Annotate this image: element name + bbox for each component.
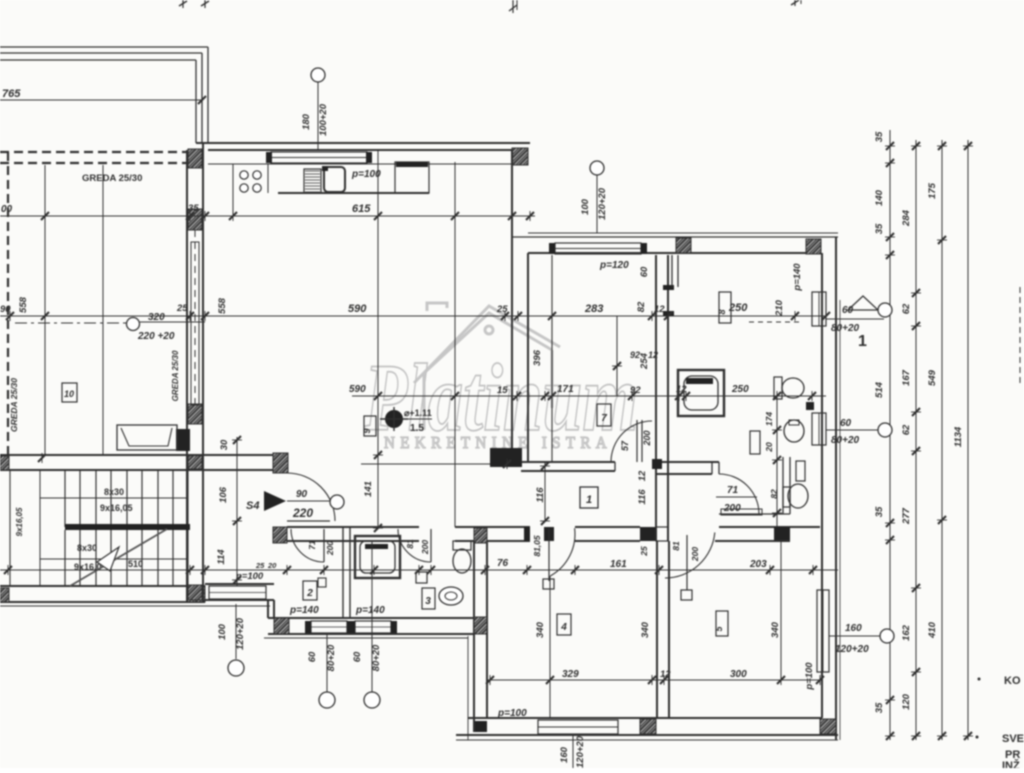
right exterior wall bbox=[821, 253, 823, 718]
bedroom1 door arc bbox=[611, 421, 652, 462]
svg-text:p=140: p=140 bbox=[289, 605, 319, 616]
corridor bottom wall segments bbox=[287, 526, 419, 528]
svg-text:p=120: p=120 bbox=[599, 260, 629, 271]
svg-text:81: 81 bbox=[671, 541, 681, 551]
svg-text:220: 220 bbox=[292, 506, 313, 520]
kitchen window top bbox=[271, 152, 367, 163]
svg-text:590: 590 bbox=[348, 303, 367, 315]
washing machine room2-3 bbox=[355, 536, 400, 578]
vertical dim x617 door bedroom bbox=[616, 316, 618, 396]
svg-text:71: 71 bbox=[307, 540, 317, 550]
black shaft block corridor top bbox=[490, 448, 522, 467]
wc niche partition bbox=[782, 457, 784, 514]
svg-text:410: 410 bbox=[927, 621, 938, 639]
room3 label box bbox=[422, 588, 435, 609]
svg-text:8: 8 bbox=[717, 309, 727, 314]
grid line x45 bbox=[44, 165, 46, 455]
stairs treads lower flight bbox=[64, 530, 66, 586]
svg-text:81: 81 bbox=[405, 539, 415, 549]
neighbor line right bbox=[1019, 287, 1021, 384]
window right wall upper p=140 bbox=[812, 292, 826, 326]
svg-text:329: 329 bbox=[562, 669, 579, 680]
svg-text:8x30: 8x30 bbox=[77, 543, 97, 553]
svg-text:60: 60 bbox=[307, 651, 318, 662]
vertical dimension chain A x890 bbox=[889, 130, 891, 740]
svg-text:250: 250 bbox=[731, 384, 749, 395]
leader circle bedroom window bbox=[590, 161, 604, 175]
svg-text:8x30: 8x30 bbox=[104, 487, 124, 497]
dimension line y570 full chain bbox=[0, 569, 455, 571]
svg-text:57: 57 bbox=[620, 440, 630, 451]
hatch block bottom wall rooms corner left bbox=[274, 618, 289, 634]
hatch blocks main wall bbox=[188, 149, 202, 168]
kitchen exterior wall top bbox=[196, 142, 530, 144]
black block at room4 door bbox=[524, 527, 530, 541]
leader window2 60/80+20 bbox=[826, 429, 878, 431]
room2 label box bbox=[303, 581, 317, 600]
svg-text:3: 3 bbox=[425, 596, 431, 607]
light fixture symbol bbox=[385, 410, 403, 428]
corridor top wall bbox=[521, 461, 615, 463]
leader circle entry bbox=[330, 495, 344, 509]
hatch block stairs wall right bbox=[190, 586, 205, 602]
leader hall window bbox=[235, 604, 237, 659]
window right wall middle bbox=[812, 413, 826, 445]
toilet bath bbox=[774, 377, 782, 399]
room2 door arc bbox=[291, 529, 324, 562]
room3 door arc bbox=[398, 529, 431, 562]
svg-text:25: 25 bbox=[639, 546, 649, 557]
svg-text:180: 180 bbox=[301, 113, 312, 130]
partition rooms 2-3 bbox=[342, 527, 344, 618]
svg-text:284: 284 bbox=[901, 209, 912, 227]
svg-text:120+20: 120+20 bbox=[835, 644, 869, 655]
thin line dining-corridor bbox=[361, 463, 490, 465]
svg-text:116: 116 bbox=[535, 487, 546, 503]
svg-text:200: 200 bbox=[690, 547, 700, 562]
svg-text:INŽ: INŽ bbox=[1002, 759, 1020, 768]
svg-text:62: 62 bbox=[901, 424, 912, 435]
svg-text:71: 71 bbox=[727, 485, 739, 496]
svg-text:76: 76 bbox=[497, 558, 509, 569]
svg-text:116: 116 bbox=[637, 489, 648, 505]
svg-text:1: 1 bbox=[858, 333, 867, 350]
fridge hatch bbox=[304, 169, 321, 193]
svg-text:SVE: SVE bbox=[1002, 733, 1024, 745]
black chimney block living room bbox=[176, 429, 190, 451]
leader room2 window bbox=[326, 634, 328, 692]
svg-text:106: 106 bbox=[218, 486, 229, 503]
svg-text:200: 200 bbox=[642, 430, 652, 446]
svg-text:558: 558 bbox=[18, 296, 29, 313]
beam dashed vertical left GREDA 25/30 bbox=[7, 152, 9, 455]
svg-text:60: 60 bbox=[840, 418, 852, 429]
svg-text:GREDA 25/30: GREDA 25/30 bbox=[171, 350, 180, 401]
svg-text:25: 25 bbox=[255, 561, 265, 570]
svg-text:340: 340 bbox=[535, 621, 546, 638]
dimension line y316 bbox=[0, 315, 826, 317]
vertical dimension chain D x968 bbox=[967, 140, 969, 740]
black valve square right wall bbox=[806, 402, 814, 410]
room10 label box bbox=[62, 383, 77, 402]
vertical dimension chain C x942 bbox=[941, 140, 943, 740]
svg-text:60: 60 bbox=[352, 651, 363, 662]
room5 label box bbox=[716, 611, 728, 636]
vertical dim bath x777 bbox=[776, 396, 778, 527]
svg-text:100: 100 bbox=[580, 198, 591, 215]
room4 door bbox=[550, 528, 575, 576]
beam dashed lines living room top bbox=[0, 151, 186, 153]
window room3 bottom bbox=[355, 621, 391, 633]
window room2 bottom bbox=[311, 621, 347, 633]
svg-text:⌀+1.11: ⌀+1.11 bbox=[404, 408, 432, 418]
svg-text:S4: S4 bbox=[246, 500, 259, 512]
svg-text:590: 590 bbox=[349, 384, 366, 395]
svg-text:GREDA 25/30: GREDA 25/30 bbox=[82, 173, 142, 184]
bedroom1-bath wall vertical bbox=[655, 255, 657, 541]
svg-text:320: 320 bbox=[148, 312, 165, 323]
room5 door bbox=[665, 532, 715, 578]
svg-text:35: 35 bbox=[874, 131, 885, 142]
svg-text:174: 174 bbox=[764, 412, 774, 426]
svg-text:140: 140 bbox=[874, 189, 885, 206]
svg-text:60: 60 bbox=[639, 266, 650, 277]
svg-text:396: 396 bbox=[532, 349, 543, 366]
svg-text:120: 120 bbox=[901, 693, 912, 710]
leader room3 window bbox=[371, 541, 373, 692]
svg-text:120+20: 120+20 bbox=[235, 617, 246, 650]
bottom exterior wall right wing bbox=[468, 717, 822, 719]
svg-text:30: 30 bbox=[219, 439, 230, 450]
svg-text:82: 82 bbox=[769, 489, 779, 499]
svg-text:175: 175 bbox=[927, 182, 938, 199]
svg-text:167: 167 bbox=[901, 369, 912, 386]
entry door arc S4 bbox=[287, 473, 335, 521]
svg-text:277: 277 bbox=[901, 507, 912, 525]
svg-text:510: 510 bbox=[128, 559, 143, 569]
svg-text:12: 12 bbox=[654, 304, 665, 315]
svg-text:1: 1 bbox=[586, 494, 592, 506]
svg-text:p=140: p=140 bbox=[355, 605, 385, 616]
svg-text:92: 92 bbox=[630, 385, 641, 396]
room9 label box bbox=[364, 416, 376, 436]
hatch block left end bbox=[0, 456, 9, 470]
svg-text:120+20: 120+20 bbox=[575, 735, 586, 768]
wall jog vertical x268 bbox=[267, 600, 269, 618]
stairs landing edge bbox=[65, 524, 190, 530]
radiator box wc bbox=[796, 461, 805, 481]
dimension line y396 bbox=[352, 395, 826, 397]
svg-text:80+20: 80+20 bbox=[831, 435, 860, 446]
grid line x103 bbox=[102, 165, 104, 455]
leader window3 160/120+20 bbox=[829, 635, 880, 637]
svg-text:200: 200 bbox=[420, 540, 430, 555]
svg-text:12: 12 bbox=[676, 384, 687, 395]
watermark house logo bbox=[414, 303, 560, 430]
svg-text:283: 283 bbox=[584, 303, 603, 315]
svg-text:765: 765 bbox=[2, 88, 21, 100]
svg-text:80+20: 80+20 bbox=[326, 644, 337, 671]
svg-text:p=100: p=100 bbox=[351, 169, 381, 180]
svg-text:25: 25 bbox=[176, 303, 188, 314]
svg-text:20: 20 bbox=[267, 561, 277, 570]
leader room4 bottom window 160/120+20 bbox=[572, 735, 574, 768]
kitchen counter divider bbox=[232, 164, 234, 216]
bidet bath bbox=[784, 420, 804, 442]
kitchen sink bbox=[324, 167, 345, 192]
svg-text:35: 35 bbox=[874, 702, 885, 713]
svg-text:9x16,05: 9x16,05 bbox=[100, 503, 133, 513]
svg-text:120+20: 120+20 bbox=[597, 187, 608, 220]
section marks top bbox=[182, 0, 184, 8]
svg-text:514: 514 bbox=[874, 381, 885, 398]
svg-text:p=100: p=100 bbox=[804, 662, 815, 691]
window right wall lower room5 bbox=[817, 590, 829, 672]
svg-text:340: 340 bbox=[770, 621, 781, 638]
stairs outline bbox=[10, 470, 188, 586]
svg-text:210: 210 bbox=[774, 299, 785, 317]
svg-text:90: 90 bbox=[0, 304, 11, 315]
hatch block kitchen wall right corner bbox=[512, 148, 528, 165]
bath partition stub bbox=[671, 255, 673, 287]
wc lower wall bbox=[719, 513, 790, 515]
room4 left exterior wall bbox=[473, 541, 475, 732]
svg-text:15: 15 bbox=[497, 385, 508, 396]
dashed line bath bbox=[749, 321, 801, 323]
room7 label box bbox=[597, 404, 611, 426]
dimension line y680 bbox=[487, 679, 822, 681]
svg-text:2: 2 bbox=[306, 588, 313, 599]
svg-text:80+20: 80+20 bbox=[371, 644, 382, 671]
radiator box bath bbox=[750, 431, 760, 454]
svg-text:300: 300 bbox=[730, 669, 747, 680]
svg-text:10: 10 bbox=[64, 389, 74, 399]
svg-text:90: 90 bbox=[296, 489, 308, 500]
svg-text:60: 60 bbox=[842, 305, 854, 316]
svg-text:114: 114 bbox=[216, 549, 227, 565]
vertical dim kitchen bbox=[102, 165, 104, 216]
svg-text:250: 250 bbox=[728, 302, 748, 314]
svg-text:82: 82 bbox=[636, 301, 647, 312]
kitchen-bedroom wall vertical x512-528 bbox=[511, 150, 513, 448]
interior window in main wall bbox=[191, 242, 199, 405]
living room niche window bbox=[117, 425, 177, 450]
svg-text:81,05: 81,05 bbox=[532, 535, 542, 557]
stove burners bbox=[240, 171, 248, 179]
svg-text:35: 35 bbox=[874, 223, 885, 234]
stairs direction arrow bbox=[70, 529, 167, 586]
dimension 765 terrace bbox=[0, 99, 202, 101]
svg-text:62: 62 bbox=[901, 303, 912, 314]
svg-text:12: 12 bbox=[660, 669, 671, 680]
hatch block stairs wall left bbox=[0, 588, 9, 602]
terrace wall top-left triple line bbox=[0, 46, 208, 48]
stairs treads upper flight bbox=[64, 470, 66, 527]
hall bottom wall with window bbox=[205, 583, 274, 585]
vertical dim room4 340 bbox=[549, 576, 551, 718]
window hall p=100 bbox=[209, 586, 266, 599]
radiator box 8 bbox=[719, 292, 731, 323]
wc door wall stub bbox=[711, 462, 713, 474]
svg-text:4: 4 bbox=[560, 622, 567, 633]
svg-text:200: 200 bbox=[325, 541, 335, 556]
hatch block top wall right corner bbox=[806, 239, 821, 254]
bedroom exterior wall top bbox=[512, 236, 838, 238]
svg-text:220 +20: 220 +20 bbox=[137, 331, 175, 342]
bath-corridor wall bbox=[656, 461, 719, 463]
hatch block top wall at bath bbox=[676, 238, 691, 253]
black block bottom wall left bbox=[473, 721, 487, 732]
small square fixture bbox=[416, 572, 427, 583]
svg-text:160: 160 bbox=[845, 623, 862, 634]
partition rooms 4-5 bbox=[656, 541, 658, 718]
toilet wc niche bbox=[783, 487, 790, 507]
svg-text:549: 549 bbox=[927, 369, 938, 386]
hatch block bottom wall bbox=[640, 719, 656, 734]
black block rooms 4-5 wall top bbox=[640, 527, 656, 541]
hatch block hall-room2 corner bbox=[273, 527, 287, 543]
kitchen cabinet right bbox=[395, 162, 429, 193]
svg-text:1.5: 1.5 bbox=[410, 423, 424, 434]
svg-text:9x16,05: 9x16,05 bbox=[15, 507, 24, 536]
svg-text:35: 35 bbox=[874, 506, 885, 517]
vertical dim corridor 116 bbox=[544, 461, 546, 521]
leader circle kitchen window bbox=[311, 68, 325, 82]
kitchen counter line bbox=[208, 163, 512, 165]
washbasin room3 bbox=[439, 587, 463, 605]
black blocks wc wall bbox=[774, 527, 790, 542]
stairs inner lines bbox=[40, 497, 188, 499]
room1 label box bbox=[580, 487, 598, 508]
svg-text:p=100: p=100 bbox=[497, 708, 527, 719]
vertical dim hall x237 bbox=[236, 437, 238, 586]
vertical dim x455 bbox=[454, 162, 456, 527]
svg-text:340: 340 bbox=[640, 621, 651, 638]
svg-text:35: 35 bbox=[188, 203, 199, 214]
bath door jambs bbox=[663, 285, 674, 290]
room4 label box bbox=[557, 614, 571, 635]
hatch block room3 right bbox=[474, 528, 487, 543]
vertical dimension chain B x916 bbox=[915, 140, 917, 740]
window bottom wall room4 bbox=[538, 720, 618, 734]
vertical dim line bedroom height 396 bbox=[551, 255, 553, 462]
svg-text:171: 171 bbox=[557, 384, 574, 395]
vertical dim x378 141 bbox=[377, 150, 379, 528]
svg-text:9: 9 bbox=[362, 428, 372, 433]
svg-text:20: 20 bbox=[764, 442, 774, 453]
svg-text:162: 162 bbox=[901, 624, 912, 641]
svg-text:141: 141 bbox=[363, 481, 374, 497]
leader window1 60/80+20 bbox=[826, 318, 884, 320]
wc door arc bbox=[719, 474, 759, 514]
svg-text:12: 12 bbox=[637, 470, 648, 481]
svg-text:100+20: 100+20 bbox=[318, 103, 329, 136]
level line with circle 320/220+20 bbox=[15, 322, 126, 324]
dimension line y570 rooms bbox=[455, 569, 838, 571]
svg-text:558: 558 bbox=[217, 297, 228, 314]
bottom wall rooms 2-3 bbox=[268, 617, 474, 619]
svg-text:80+20: 80+20 bbox=[831, 323, 860, 334]
main interior wall vertical bbox=[186, 150, 188, 602]
svg-text:161: 161 bbox=[610, 559, 627, 570]
dimension line y216 bbox=[0, 215, 535, 217]
svg-text:100: 100 bbox=[217, 623, 228, 640]
hatch block bottom wall right corner bbox=[820, 719, 836, 734]
wc door label 71/200 bbox=[716, 496, 757, 498]
bedroom window top p=120 bbox=[555, 243, 641, 254]
stairs bottom exterior wall bbox=[0, 585, 205, 587]
wall between living room and stairs bbox=[0, 454, 287, 456]
svg-text:615: 615 bbox=[352, 203, 371, 215]
svg-text:203: 203 bbox=[749, 559, 767, 570]
small box near room2 label bbox=[318, 578, 326, 587]
hatch block at entry door bbox=[273, 453, 288, 473]
fixture leader line bbox=[403, 418, 432, 420]
toilet room3 bbox=[453, 541, 471, 550]
svg-text:1134: 1134 bbox=[953, 426, 964, 447]
svg-text:KO: KO bbox=[1004, 675, 1021, 687]
svg-text:00: 00 bbox=[1, 204, 13, 215]
hatch block room4 wall bbox=[474, 617, 487, 634]
svg-text:GREDA 25/30: GREDA 25/30 bbox=[9, 378, 19, 432]
shower cabin bbox=[678, 370, 724, 416]
svg-text:7: 7 bbox=[601, 413, 607, 424]
entry door size label 90/220 bbox=[287, 500, 330, 502]
svg-text:p=140: p=140 bbox=[792, 263, 803, 292]
svg-text:254: 254 bbox=[639, 352, 650, 370]
svg-text:25: 25 bbox=[496, 304, 508, 315]
svg-text:160: 160 bbox=[559, 746, 570, 763]
